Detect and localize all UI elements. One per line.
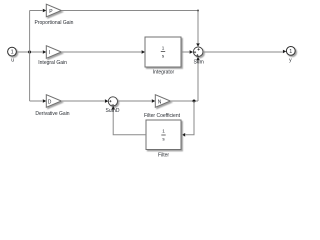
sum block SumD — [108, 97, 117, 106]
svg-text:Proportional Gain: Proportional Gain — [35, 20, 74, 26]
integrator block — [145, 37, 181, 67]
wire N junction to Sum bottom — [197, 60, 199, 101]
svg-text:D: D — [48, 99, 52, 105]
node junction N — [193, 100, 196, 103]
wire P to Sum — [61, 11, 198, 44]
sum block Sum — [193, 47, 203, 57]
svg-text:Derivative Gain: Derivative Gain — [35, 111, 69, 117]
svg-text:1: 1 — [162, 129, 165, 134]
wire Sum to output y — [203, 51, 283, 53]
svg-text:1: 1 — [11, 50, 14, 56]
wire branch vertical — [29, 11, 31, 102]
wire Integrator to Sum — [181, 51, 189, 53]
svg-text:I: I — [49, 50, 50, 56]
node corner P — [197, 10, 199, 12]
wire I to Integrator — [61, 51, 141, 53]
wire to Derivative Gain — [30, 100, 43, 102]
output port 1 — [286, 47, 295, 56]
svg-text:1: 1 — [289, 49, 292, 55]
svg-text:Filter Coefficient: Filter Coefficient — [144, 113, 181, 119]
svg-text:u: u — [11, 58, 14, 64]
wire SumD to Filter Coefficient — [118, 100, 152, 102]
svg-text:1: 1 — [162, 45, 165, 50]
svg-text:Filter: Filter — [158, 152, 169, 158]
wire junction to Filter input — [185, 101, 194, 135]
wire N to junction and Sum — [170, 100, 198, 102]
svg-text:N: N — [158, 99, 162, 105]
svg-text:Integrator: Integrator — [153, 70, 175, 76]
svg-text:y: y — [289, 58, 292, 64]
wire u to Integral Gain — [16, 51, 42, 53]
input port 1 — [8, 47, 17, 56]
svg-text:Integral Gain: Integral Gain — [38, 60, 67, 66]
gain N Filter Coefficient — [155, 95, 170, 108]
wire to Proportional Gain — [30, 10, 43, 12]
gain P — [46, 4, 61, 17]
gain D — [46, 95, 61, 108]
gain I — [46, 46, 61, 59]
filter block — [146, 120, 181, 150]
node branch junction — [28, 51, 31, 54]
wire D to SumD — [61, 100, 104, 102]
wire Filter to SumD bottom — [113, 110, 146, 135]
